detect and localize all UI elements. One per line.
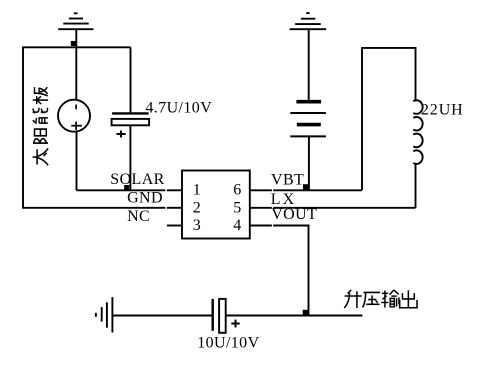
- svg-text:3: 3: [193, 217, 201, 234]
- svg-text:VOUT: VOUT: [271, 206, 317, 223]
- svg-text:SOLAR: SOLAR: [110, 171, 164, 188]
- svg-text:4.7U/10V: 4.7U/10V: [145, 99, 212, 116]
- svg-text:2: 2: [193, 199, 201, 216]
- svg-text:10U/10V: 10U/10V: [197, 334, 259, 351]
- svg-text:6: 6: [233, 182, 241, 199]
- svg-text:1: 1: [193, 182, 201, 199]
- svg-text:VBT: VBT: [271, 172, 304, 189]
- svg-text:22UH: 22UH: [421, 102, 464, 119]
- svg-text:NC: NC: [127, 208, 150, 225]
- svg-text:4: 4: [233, 217, 241, 234]
- svg-text:5: 5: [233, 199, 241, 216]
- svg-text:GND: GND: [127, 190, 163, 207]
